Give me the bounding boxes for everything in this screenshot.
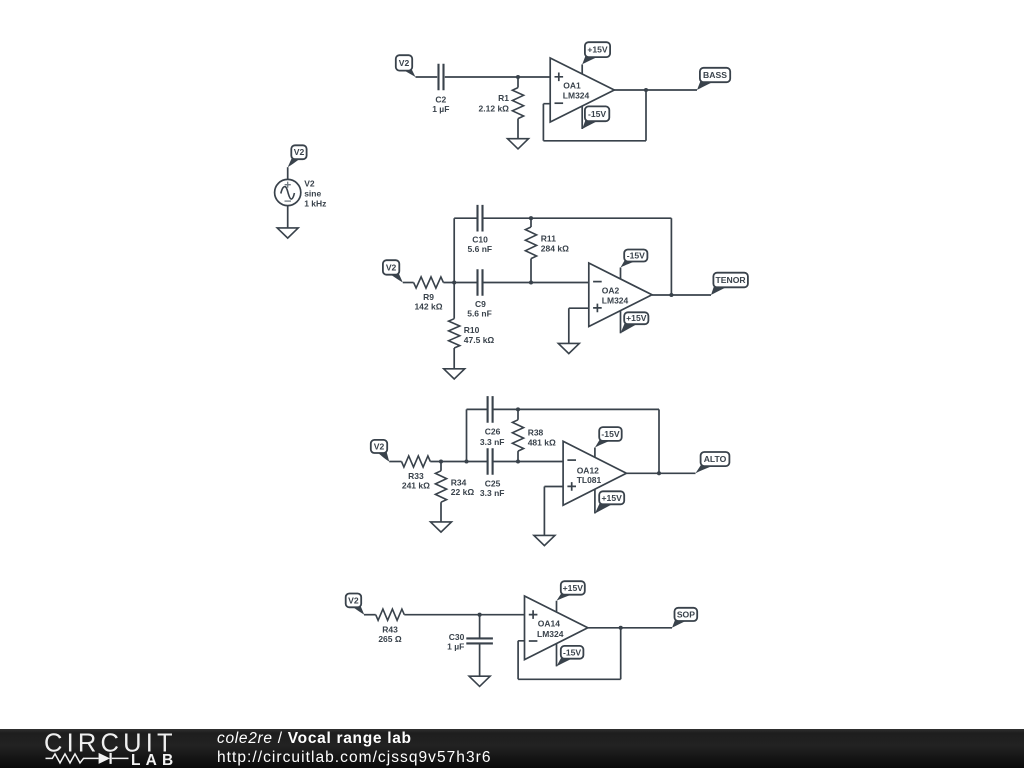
svg-text:OA12: OA12 [577, 465, 599, 475]
svg-text:OA1: OA1 [563, 80, 581, 90]
power pin -15V [620, 268, 622, 279]
ground (R10) [444, 369, 465, 379]
node junction [516, 75, 520, 79]
capacitor C26 [488, 396, 493, 423]
node flag ALTO [696, 464, 717, 473]
capacitor C9 [478, 269, 483, 296]
wire [443, 282, 477, 284]
svg-text:+15V: +15V [563, 583, 584, 593]
resistor R34 [440, 462, 442, 471]
resistor R33 [402, 456, 431, 467]
node junction [516, 459, 520, 463]
svg-text:R1: R1 [498, 93, 509, 103]
power pin +15V [581, 64, 583, 74]
wire (feedback rail) [658, 409, 660, 473]
node junction [619, 626, 623, 630]
CircuitLab logo resistor+diode glyph [46, 754, 99, 763]
wire [287, 205, 289, 228]
svg-text:1 µF: 1 µF [432, 104, 449, 114]
svg-text:5.6 nF: 5.6 nF [467, 309, 492, 319]
svg-text:-15V: -15V [601, 429, 619, 439]
node flag SOP [672, 619, 689, 628]
node flag V2 (source) [288, 157, 302, 167]
svg-text:5.6 nF: 5.6 nF [468, 244, 493, 254]
power pin +15V [556, 601, 558, 612]
svg-text:BASS: BASS [703, 70, 727, 80]
wire (+ input to ground) [569, 308, 589, 343]
resistor R10 [453, 283, 455, 319]
svg-text:V2: V2 [294, 147, 305, 157]
svg-text:265 Ω: 265 Ω [378, 634, 402, 644]
svg-text:+15V: +15V [602, 493, 623, 503]
node junction [529, 216, 533, 220]
svg-text:V2: V2 [399, 58, 410, 68]
capacitor C25 [488, 448, 493, 475]
node junction [657, 471, 661, 475]
wire (up to top rail) [454, 218, 477, 282]
voltage source V2 sine 1 kHz [275, 179, 301, 205]
svg-text:481 kΩ: 481 kΩ [528, 437, 556, 447]
power pin -15V [556, 644, 558, 667]
wire (output) [588, 627, 672, 629]
wire (top rail) [493, 408, 659, 410]
svg-text:LAB: LAB [131, 752, 178, 768]
svg-text:+15V: +15V [587, 45, 608, 55]
svg-text:-15V: -15V [588, 109, 606, 119]
wire [430, 461, 487, 463]
svg-text:3.3 nF: 3.3 nF [480, 488, 505, 498]
svg-text:sine: sine [304, 188, 321, 198]
power pin +15V [594, 489, 596, 513]
svg-text:R33: R33 [408, 471, 424, 481]
resistor R43 [376, 609, 405, 620]
svg-text:2.12 kΩ: 2.12 kΩ [479, 104, 510, 114]
svg-text:OA2: OA2 [602, 286, 620, 296]
svg-text:V2: V2 [374, 441, 385, 451]
node junction [452, 280, 456, 284]
node junction [464, 459, 468, 463]
wire (output) [652, 294, 711, 296]
capacitor C10 [478, 205, 483, 232]
power pin -15V [581, 106, 583, 129]
node junction [478, 613, 482, 617]
svg-text:LM324: LM324 [537, 629, 564, 639]
wire [389, 461, 401, 463]
capacitor C30 [479, 615, 481, 639]
node junction [669, 293, 673, 297]
svg-text:V2: V2 [348, 595, 359, 605]
svg-text:OA14: OA14 [538, 619, 560, 629]
svg-text:-15V: -15V [563, 647, 581, 657]
svg-text:C30: C30 [449, 632, 465, 642]
capacitor C2 [439, 64, 444, 91]
node junction [644, 88, 648, 92]
svg-text:-15V: -15V [627, 251, 645, 261]
svg-text:C26: C26 [485, 427, 501, 437]
op-amp OA2 LM324 [589, 263, 652, 327]
wire [483, 282, 589, 284]
wire [404, 614, 524, 616]
node flag V2 (alto input) [376, 451, 389, 461]
op-amp OA1 LM324 [550, 58, 614, 122]
ground (OA2 +) [558, 343, 579, 353]
svg-text:1 µF: 1 µF [447, 642, 464, 652]
svg-text:22 kΩ: 22 kΩ [451, 487, 475, 497]
ground (C30) [469, 676, 490, 686]
svg-text:SOP: SOP [677, 609, 695, 619]
svg-text:142 kΩ: 142 kΩ [414, 302, 442, 312]
wire [445, 76, 550, 78]
svg-text:1 kHz: 1 kHz [304, 199, 326, 209]
svg-text:+15V: +15V [626, 313, 647, 323]
svg-text:R10: R10 [464, 325, 480, 335]
resistor R1 [517, 77, 519, 88]
svg-text:ALTO: ALTO [704, 454, 727, 464]
svg-text:R34: R34 [451, 477, 467, 487]
wire [287, 167, 289, 179]
node flag BASS [697, 80, 716, 90]
svg-text:R38: R38 [528, 428, 544, 438]
wire [416, 76, 438, 78]
svg-text:V2: V2 [304, 178, 315, 188]
node junction [439, 459, 443, 463]
resistor R11 [530, 218, 532, 227]
svg-text:284 kΩ: 284 kΩ [541, 243, 569, 253]
ground (R34) [431, 522, 452, 532]
wire (top rail) [483, 217, 672, 219]
node junction [516, 407, 520, 411]
wire (output) [626, 472, 695, 474]
wire (feedback rail) [670, 218, 672, 295]
wire (feedback) [518, 628, 621, 680]
resistor R38 [517, 409, 519, 419]
wire (up to top rail) [467, 409, 488, 461]
op-amp OA14 LM324 [525, 596, 588, 660]
ground (OA12 +) [534, 535, 555, 545]
node flag V2 (bass input) [401, 69, 415, 77]
wire (feedback) [543, 90, 646, 141]
svg-text:TENOR: TENOR [716, 275, 747, 285]
svg-text:LM324: LM324 [602, 295, 629, 305]
svg-text:241 kΩ: 241 kΩ [402, 481, 430, 491]
svg-text:3.3 nF: 3.3 nF [480, 437, 505, 447]
svg-text:V2: V2 [386, 262, 397, 272]
wire [364, 614, 376, 616]
power pin +15V [620, 311, 622, 334]
wire (+ input to ground) [544, 487, 563, 536]
wire [493, 461, 563, 463]
op-amp OA12 TL081 [563, 441, 626, 505]
svg-text:C10: C10 [472, 234, 488, 244]
ground (source) [277, 228, 298, 238]
svg-text:C2: C2 [435, 94, 446, 104]
node flag V2 (sop input) [351, 606, 365, 615]
svg-text:47.5 kΩ: 47.5 kΩ [464, 335, 495, 345]
resistor R9 [414, 277, 444, 288]
node flag TENOR [711, 286, 730, 296]
wire [403, 282, 414, 284]
ground (R1) [508, 139, 529, 149]
svg-text:R11: R11 [541, 233, 556, 243]
svg-text:TL081: TL081 [577, 475, 602, 485]
power pin -15V [594, 448, 596, 458]
footer url line [217, 749, 492, 767]
node flag V2 (tenor input) [388, 273, 403, 283]
wire (output) [614, 89, 697, 91]
footer title line [217, 730, 412, 748]
svg-text:LM324: LM324 [563, 91, 590, 101]
node junction [529, 280, 533, 284]
